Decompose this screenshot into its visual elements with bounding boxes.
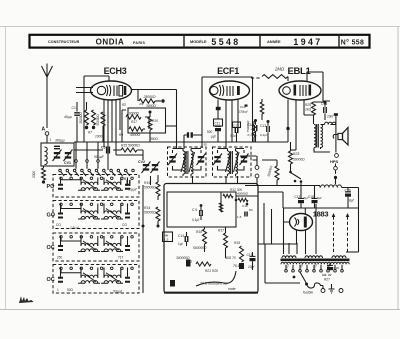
svg-text:C17: C17 [295, 195, 301, 199]
ECH3 grid arcs [107, 85, 111, 96]
svg-text:CONSTRUCTEUR: CONSTRUCTEUR [48, 40, 80, 44]
capacitor C6 [187, 132, 189, 137]
voice coil [333, 135, 338, 139]
tube ECF1 envelope [210, 81, 250, 100]
terminal PU2 [255, 174, 259, 178]
ECF1 pin 4 [237, 100, 239, 134]
wire det curve [196, 271, 236, 286]
band box GO [53, 201, 139, 229]
tube ECH3 envelope [91, 81, 132, 100]
svg-text:R23: R23 [293, 152, 299, 156]
blob c16 [324, 101, 327, 104]
svg-text:0,1µ: 0,1µ [230, 134, 236, 138]
svg-text:C11: C11 [215, 122, 221, 126]
speaker feed line [335, 115, 337, 153]
svg-text:R9: R9 [119, 133, 123, 137]
capacitor C16 [324, 107, 327, 113]
1883 filament arc [295, 218, 299, 227]
resistor R2 [126, 115, 141, 119]
switch contacts row B [75, 160, 78, 163]
wire CV2 [143, 150, 151, 185]
terminal PU1 [255, 166, 259, 170]
wire bus 185 [245, 186, 320, 188]
EBL1 pin 1 [287, 100, 289, 128]
resistor R 100k [262, 75, 288, 79]
wire cluster frame [221, 192, 258, 212]
capacitor C12 [235, 127, 237, 133]
trimmer CV2a [143, 164, 149, 166]
capacitor C18 [314, 196, 316, 200]
wire ECH3 cathode stubs [76, 88, 93, 93]
page edge bottom [0, 309, 400, 311]
svg-text:500000Ω: 500000Ω [193, 246, 207, 250]
blob pin2 [254, 119, 257, 122]
capacitor C14 [185, 236, 188, 242]
blob R1 [161, 99, 164, 102]
wire sec stubs [285, 265, 287, 270]
wire OT bottom [314, 147, 330, 152]
trimmer CV1a [54, 152, 60, 154]
svg-text:500: 500 [207, 130, 213, 134]
capacitor C19 [347, 188, 349, 193]
svg-text:40000Ω: 40000Ω [237, 192, 249, 196]
page edge right [397, 27, 399, 310]
output transformer secondary [321, 125, 323, 148]
capacitor C11 [215, 128, 221, 131]
ECH3 grid bars [114, 86, 117, 97]
EBL1 bar 1 [294, 85, 297, 96]
svg-text:HPS: HPS [330, 159, 339, 164]
ground symbol mains [329, 284, 335, 293]
band box OC2 [53, 265, 139, 294]
capacitor C5 [107, 147, 110, 154]
svg-text:R25: R25 [305, 103, 311, 107]
wire R23 [290, 142, 292, 171]
EBL1 bar 2 [309, 85, 312, 96]
ECH3 pin 4 [115, 100, 117, 155]
svg-text:1: 1 [57, 288, 59, 292]
svg-text:220: 220 [312, 263, 318, 269]
ECF1 anode bar [237, 86, 240, 95]
svg-text:µµf: µµf [211, 135, 216, 139]
svg-text:50000Ω: 50000Ω [96, 114, 100, 126]
svg-text:1µf: 1µf [178, 242, 183, 246]
resistor R24 [275, 166, 279, 180]
svg-text:CO: CO [122, 223, 127, 227]
svg-text:bal. av: bal. av [322, 273, 332, 277]
box 4M [163, 232, 173, 242]
resistor R17 [129, 127, 143, 131]
svg-text:2MΩ: 2MΩ [274, 67, 285, 72]
svg-text:R27: R27 [324, 278, 330, 282]
wire 1883 left [284, 208, 290, 254]
svg-text:ECF1: ECF1 [217, 66, 239, 76]
svg-text:50µµF: 50µµF [94, 155, 105, 159]
svg-text:C10: C10 [242, 204, 248, 208]
svg-text:C5: C5 [101, 146, 106, 150]
svg-text:0,1µf: 0,1µf [192, 218, 200, 222]
page edge top [0, 26, 400, 28]
svg-text:ANNÉE: ANNÉE [267, 39, 281, 44]
EBL1 pin 3 [303, 100, 305, 115]
wire ECH3 anode to MF1 [131, 90, 177, 150]
svg-text:50: 50 [249, 208, 253, 212]
resistor R17b [224, 233, 228, 248]
svg-text:3000Ω: 3000Ω [146, 104, 156, 108]
svg-text:R2: R2 [122, 103, 126, 107]
terminal A [45, 132, 49, 136]
resistor R3 [85, 110, 89, 125]
svg-text:C13: C13 [260, 124, 266, 128]
resistor R4 [92, 110, 96, 125]
wire osc box [122, 110, 149, 142]
screen box ECF1 [202, 77, 253, 148]
svg-text:50: 50 [204, 143, 208, 147]
switch row B feeds [76, 142, 98, 160]
svg-text:MODÈLE: MODÈLE [190, 39, 207, 44]
switch contacts row A [59, 169, 62, 172]
field coil [321, 185, 342, 188]
padder cap C2 [54, 146, 60, 148]
svg-text:40Ω 70: 40Ω 70 [225, 256, 236, 260]
1883 anode bar [304, 217, 307, 228]
capacitor C20 [327, 267, 333, 270]
stamp mark bottom left [19, 296, 34, 303]
wire heater drop 2 [271, 209, 273, 244]
svg-text:R19: R19 [234, 241, 240, 245]
wire 358 to xfmr [346, 251, 359, 253]
wire A to input box [46, 135, 48, 143]
svg-text:R14: R14 [144, 206, 150, 210]
fuse [307, 283, 321, 288]
capacitor C12b [254, 125, 257, 131]
IF transformer MF2 [213, 147, 252, 177]
B+ dashed arrow 1 [333, 216, 335, 252]
transformer secondary winding [281, 262, 349, 264]
IF transformer MF1 [168, 147, 207, 177]
svg-text:50000Ω: 50000Ω [144, 186, 156, 190]
EBL1 plate top [307, 72, 323, 101]
svg-text:C14: C14 [178, 234, 184, 238]
wire bus 142 right [268, 141, 288, 143]
blob r20 [170, 280, 175, 287]
resistor r b [238, 198, 248, 201]
ECH3 pin 5 [119, 99, 121, 130]
ECF1 pin 2 [225, 100, 227, 149]
svg-text:10nf: 10nf [327, 115, 334, 119]
svg-text:C20: C20 [334, 266, 340, 270]
svg-text:C1: C1 [72, 106, 76, 110]
wire HPS to coil [335, 164, 337, 167]
wire EBL1 out junction [304, 101, 330, 124]
svg-text:2000: 2000 [32, 171, 36, 178]
speaker feed blob [334, 113, 338, 116]
svg-text:C 9: C 9 [192, 208, 197, 212]
svg-text:250: 250 [57, 256, 63, 260]
svg-text:PO: PO [47, 184, 56, 190]
terminal HPS [335, 154, 339, 158]
svg-text:R15: R15 [144, 181, 150, 185]
wire heater drop 1 [263, 203, 265, 244]
svg-text:R7: R7 [88, 131, 92, 135]
capacitor C1 [74, 113, 80, 115]
chassis box [164, 184, 258, 294]
wire MF2 coils down [226, 176, 238, 183]
page edge left [5, 27, 7, 310]
svg-text:C15: C15 [247, 253, 253, 257]
svg-text:25000Ω: 25000Ω [143, 95, 156, 99]
resistor R15v [156, 182, 160, 196]
wire antenna lead-in [46, 77, 48, 128]
svg-text:1,5: 1,5 [237, 215, 242, 219]
wire osc top [137, 90, 139, 102]
antenna [42, 64, 53, 78]
svg-text:B1: B1 [124, 177, 128, 181]
svg-text:GO: GO [47, 213, 56, 219]
wire EBL1 k [291, 149, 297, 151]
band box PO [53, 175, 139, 198]
resistor R23 [289, 151, 293, 164]
switch levers [61, 172, 64, 176]
wire input box down [43, 166, 45, 168]
wire bus 244 [258, 243, 297, 245]
capacitor C9 inner [200, 210, 203, 216]
wire field coil right [342, 188, 359, 253]
svg-text:ONDIA: ONDIA [96, 37, 125, 46]
wire MF1 secondary down [192, 176, 194, 183]
blob cluster [235, 199, 238, 202]
EBL1 pin 2 [295, 100, 297, 150]
ECH3 anode bar [124, 86, 127, 95]
terminal mains 2 [339, 289, 343, 293]
svg-text:50000Ω: 50000Ω [293, 158, 305, 162]
svg-text:10µf: 10µf [248, 265, 255, 269]
blob R3 [85, 126, 88, 129]
wire bus 155 [116, 154, 143, 156]
wire R24 [262, 160, 277, 186]
svg-text:110: 110 [284, 263, 290, 269]
ECF1 pin 1 [217, 100, 219, 120]
svg-text:N° 558: N° 558 [341, 38, 365, 46]
capacitor C17 [300, 196, 302, 200]
svg-text:5548: 5548 [211, 37, 240, 47]
svg-text:OC: OC [47, 245, 55, 251]
wire mains switch feed [265, 244, 300, 283]
switch row B stubs [76, 162, 98, 169]
trimmer CV2b [152, 164, 158, 166]
resistor R18 [203, 229, 207, 244]
svg-text:300µµ: 300µµ [55, 139, 65, 143]
resistor r a [223, 194, 233, 197]
svg-text:1kΩ: 1kΩ [305, 108, 311, 112]
band box OC1 [53, 233, 139, 261]
svg-text:2,5µµf: 2,5µµf [69, 226, 80, 230]
svg-text:R15 50000Ω: R15 50000Ω [121, 144, 140, 148]
svg-text:ECH3: ECH3 [104, 66, 127, 76]
blob EBL1 grid [286, 127, 289, 130]
wire bus155 right [240, 155, 257, 157]
svg-text:fusible: fusible [303, 291, 313, 295]
transformer primary winding 3 [332, 256, 346, 258]
blob R6 [149, 111, 152, 114]
svg-text:130µµf: 130µµf [239, 110, 249, 114]
blob 143 [142, 225, 145, 228]
svg-text:20000Ω: 20000Ω [79, 112, 83, 124]
svg-text:C12: C12 [248, 123, 254, 127]
svg-text:CV2: CV2 [138, 160, 145, 164]
svg-text:35µµf: 35µµf [128, 188, 137, 192]
wire fuse to plug [321, 286, 324, 289]
terminal HPS 2 [334, 166, 338, 170]
switch tone [291, 173, 302, 180]
ECH3 top pin [108, 76, 110, 82]
ECF1 grid arcs [220, 85, 224, 96]
EBL1 grid dashes [300, 85, 306, 96]
svg-text:R18: R18 [196, 230, 202, 234]
svg-text:1947: 1947 [293, 37, 322, 47]
ECF1 pin 3 [231, 100, 233, 142]
speaker throat [338, 133, 343, 139]
wire bus 142 [74, 141, 268, 143]
wire grid box ECH3 [84, 76, 109, 142]
svg-text:CV1: CV1 [64, 161, 71, 165]
svg-text:CO: CO [56, 223, 61, 227]
tone coil [325, 122, 336, 124]
ECH3 pin 1 [103, 99, 105, 147]
resistor R6 [148, 117, 152, 130]
title block frame [30, 35, 370, 48]
svg-text:130: 130 [298, 263, 304, 269]
wire 1883 plate top [304, 208, 306, 214]
mains selector lever [300, 272, 307, 284]
capacitor C11 box [214, 119, 223, 126]
svg-text:1000Ω: 1000Ω [95, 135, 105, 139]
resistor R22 [196, 262, 211, 266]
transformer primary winding 1 [282, 256, 296, 258]
svg-text:300Ω: 300Ω [150, 137, 158, 141]
svg-text:PARIS: PARIS [133, 41, 146, 45]
1883 pin 2 [305, 230, 307, 254]
oscillator box [128, 108, 166, 133]
svg-text:C18: C18 [308, 195, 314, 199]
title block divider 3 [338, 34, 340, 48]
resistor R20 [252, 124, 256, 137]
svg-text:8µf: 8µf [317, 196, 323, 200]
wire bus 192 ext [258, 192, 283, 208]
resistor r c [219, 203, 222, 212]
capacitor c10 [245, 212, 247, 217]
blob R4 [92, 126, 95, 129]
tube 1883 envelope [290, 214, 313, 231]
ECH3 cathode circle [97, 86, 105, 94]
svg-text:40µµ: 40µµ [64, 115, 72, 119]
wire PU [253, 156, 258, 186]
ECH3 pin 3 [111, 100, 113, 142]
tube EBL1 envelope [279, 81, 321, 100]
svg-text:A: A [42, 127, 46, 133]
svg-text:onde: onde [228, 287, 236, 291]
svg-text:717: 717 [118, 256, 124, 260]
ECH3 screen rect [119, 86, 123, 97]
svg-text:1: 1 [50, 138, 52, 142]
output transformer primary [314, 125, 316, 148]
terminal mains 1 [321, 289, 325, 293]
aerial input box [41, 143, 74, 166]
svg-text:53µµf: 53µµf [113, 290, 123, 294]
capacitor C13 [267, 126, 270, 132]
trimmer CV1b [65, 152, 71, 154]
capacitor C12 box [233, 122, 241, 128]
transformer tap terminals [285, 270, 288, 273]
svg-text:C12: C12 [233, 124, 239, 128]
resistor R25 [312, 102, 316, 115]
svg-text:R1: R1 [140, 102, 144, 106]
resistor R15b [121, 148, 137, 152]
svg-text:1883: 1883 [313, 210, 329, 219]
capacitor B1 [127, 180, 130, 186]
wire bus 208 [283, 207, 359, 209]
resistor R21v [260, 102, 264, 114]
wire xfmr feeds [289, 204, 316, 254]
svg-text:1,5: 1,5 [164, 238, 169, 242]
transformer core bar [281, 259, 350, 262]
resistor R earth [42, 168, 46, 180]
wire tone coil [321, 124, 336, 126]
title block divider 1 [183, 34, 185, 48]
resistor R5 [101, 112, 105, 126]
wire dash 78 [251, 77, 261, 79]
blob earth [42, 180, 45, 183]
output transformer core [317, 124, 319, 148]
resistor R19 [240, 246, 244, 262]
svg-text:50Ω: 50Ω [67, 288, 74, 292]
blob R19 [239, 263, 244, 269]
ECH3 pin 2 [107, 100, 109, 170]
resistor R1 [139, 99, 155, 103]
ECF1 cathode circle [210, 87, 218, 95]
capacitor C15 [250, 258, 256, 261]
svg-text:R17: R17 [218, 229, 224, 233]
svg-text:R21 R20: R21 R20 [205, 269, 218, 273]
svg-text:0,1µf: 0,1µf [248, 133, 256, 137]
inner box [167, 192, 236, 227]
wire C5 row [74, 149, 143, 151]
blob R22 [186, 260, 191, 267]
wire 100k to EBL1 [287, 77, 289, 82]
blob sel [293, 276, 296, 279]
svg-text:10000Ω: 10000Ω [127, 112, 139, 116]
svg-text:OC: OC [47, 277, 55, 283]
B+ dashed arrow 2 [347, 216, 349, 252]
svg-text:R17: R17 [131, 120, 137, 124]
svg-text:C19: C19 [345, 189, 351, 193]
svg-text:50000Ω: 50000Ω [144, 211, 156, 215]
ECF1 grid dashes [227, 86, 233, 96]
svg-text:R10: R10 [152, 119, 158, 123]
blob pin [267, 120, 270, 123]
svg-text:50000Ω: 50000Ω [267, 165, 274, 177]
title block divider 2 [259, 34, 261, 48]
svg-text:0,1µf: 0,1µf [260, 133, 268, 137]
resistor R14v [156, 207, 160, 221]
1883 pin 1 [296, 230, 298, 244]
transformer primary winding 2 [305, 256, 323, 258]
svg-text:4000Ω: 4000Ω [130, 133, 140, 137]
input coil L1 [45, 147, 48, 165]
svg-text:8µf: 8µf [349, 199, 355, 203]
wire long vertical 143 [142, 185, 144, 293]
EBL1 diode circle [283, 87, 291, 95]
